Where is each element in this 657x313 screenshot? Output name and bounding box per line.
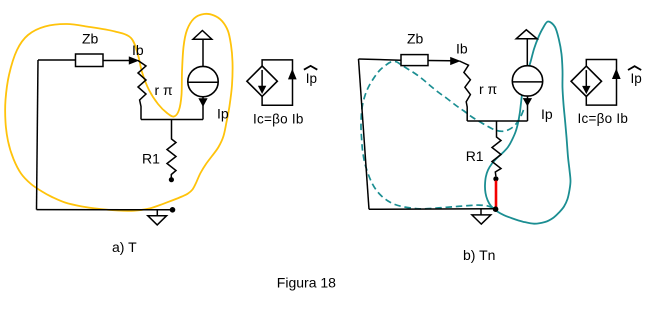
wire bottom of subcircuit (a) — [141, 119, 203, 121]
svg-text:a) T: a) T — [112, 239, 137, 255]
wire source top stub (b) — [526, 39, 528, 66]
svg-text:Ib: Ib — [132, 42, 144, 58]
resistor R1 (a) — [167, 120, 176, 178]
U1 Ip arrow up — [289, 70, 296, 79]
svg-text:Ip: Ip — [306, 71, 317, 86]
svg-text:r π: r π — [479, 81, 498, 97]
resistor Zb (a) — [76, 54, 104, 67]
wire Zb to rpi with Ib arrow (a) — [103, 60, 131, 62]
wire left vertical (a) — [37, 60, 39, 210]
wire bottom of subcircuit (b) — [467, 120, 527, 122]
op source U1: dependent current source Ic — [247, 66, 277, 96]
wire top horizontal (b) — [359, 59, 402, 60]
current source circle (b) — [512, 66, 542, 96]
svg-text:Ip: Ip — [631, 71, 642, 86]
resistor Zb (b) — [401, 55, 428, 66]
node ground-wire terminal (a) — [170, 207, 176, 213]
svg-text:Figura 18: Figura 18 — [277, 275, 336, 291]
supply arrow up open triangle (a) — [193, 31, 212, 40]
current source chord (a) — [188, 81, 218, 83]
current source chord (b) — [512, 81, 542, 83]
loop Tn dashed segment (teal, circuit b) — [361, 62, 524, 209]
resistor r pi (b) — [459, 61, 470, 121]
wire red loop-closing link (b) — [495, 181, 498, 208]
label Ip hat (U2) — [628, 66, 641, 70]
op source U2: dependent current source Ic — [571, 66, 601, 96]
wire source bottom stub with Ip arrow (b) — [527, 96, 529, 121]
resistor r pi (a) — [138, 61, 146, 120]
wire U1 loop — [262, 60, 292, 105]
loop T (yellow feedback loop, circuit a) — [5, 14, 232, 211]
supply arrow up open triangle (b) — [516, 30, 537, 39]
wire top-left horizontal (a) — [38, 59, 76, 61]
wire bottom horizontal (a) — [37, 209, 173, 211]
node ground-wire terminal (b) — [493, 206, 499, 212]
wire source bottom stub with Ip arrow (a) — [202, 97, 204, 120]
U2 Ip arrow up — [613, 70, 620, 79]
current source circle (a) — [188, 66, 218, 96]
svg-text:Zb: Zb — [407, 31, 424, 47]
resistor R1 (b) — [492, 121, 501, 176]
node R1 bottom terminal (a) — [169, 177, 174, 182]
wire Zb to rpi with Ib arrow (b) — [428, 60, 451, 62]
U2 inner arrow — [585, 70, 587, 88]
svg-text:r π: r π — [155, 82, 174, 98]
svg-text:b) Tn: b) Tn — [463, 247, 495, 263]
loop Tn solid (teal, circuit b) — [485, 21, 571, 223]
ground (a) — [156, 210, 158, 216]
svg-text:Ip: Ip — [217, 106, 229, 122]
wire left vertical slanted (b) — [359, 59, 370, 209]
wire source top stub (a) — [202, 39, 204, 66]
svg-text:Ib: Ib — [456, 40, 468, 56]
wire U2 loop — [586, 60, 616, 106]
node R1 bottom terminal (b) — [493, 176, 498, 181]
label Ip hat (U1) — [304, 66, 317, 70]
svg-text:Ic=βo Ib: Ic=βo Ib — [578, 111, 629, 126]
svg-text:Ic=βo Ib: Ic=βo Ib — [253, 111, 304, 126]
ground (b) — [480, 209, 482, 215]
wire bottom horizontal (b) — [369, 208, 494, 211]
svg-text:Zb: Zb — [82, 31, 99, 47]
U1 inner arrow — [261, 70, 263, 88]
svg-text:Ip: Ip — [541, 106, 553, 122]
svg-text:R1: R1 — [142, 150, 160, 166]
svg-text:R1: R1 — [466, 148, 484, 164]
